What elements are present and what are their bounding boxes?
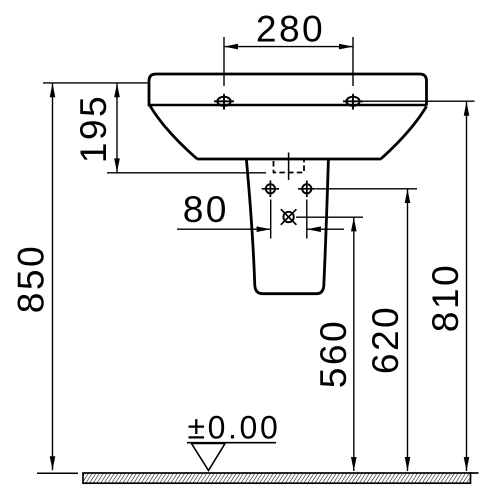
dim 280 arrow right bbox=[339, 44, 353, 50]
pedestal center hole (diagonal cross) bbox=[281, 209, 297, 225]
dim 620 line bbox=[407, 189, 409, 471]
floor line right stub bbox=[469, 472, 479, 474]
basin ledge line bbox=[149, 104, 427, 106]
drain hidden dashed box bbox=[274, 160, 305, 173]
dim 80 arrow left (pointing right) bbox=[257, 226, 271, 232]
dim 80 right line bbox=[307, 228, 344, 230]
svg-text:195: 195 bbox=[72, 94, 114, 163]
dim 280 extension line left bbox=[223, 37, 225, 86]
rim faucet hole right bbox=[343, 94, 363, 110]
dim 195 arrow top bbox=[114, 83, 120, 97]
extension line under right pedestal hole bbox=[306, 200, 308, 239]
level symbol triangle bbox=[192, 444, 226, 471]
floor hatched strip bbox=[83, 473, 471, 483]
dim 280 extension line right bbox=[352, 37, 354, 86]
pedestal outline bbox=[246, 160, 328, 294]
dim 810 line bbox=[466, 102, 468, 471]
svg-text:850: 850 bbox=[9, 244, 51, 313]
basin bowl left taper bbox=[150, 106, 197, 159]
dim 560 line bbox=[353, 217, 355, 471]
dim 280 line bbox=[224, 46, 353, 48]
dim 810 arrow top bbox=[464, 102, 470, 116]
pedestal fixing hole left bbox=[262, 181, 279, 198]
dim 560 text bbox=[312, 319, 354, 388]
dim 810 text bbox=[424, 263, 466, 332]
dim 195 bottom extension line bbox=[107, 172, 266, 174]
svg-text:560: 560 bbox=[312, 319, 354, 388]
dim 850 floor tick bbox=[37, 472, 78, 474]
svg-text:810: 810 bbox=[424, 263, 466, 332]
level label underline bbox=[187, 442, 276, 444]
dim 195 arrow bottom bbox=[114, 158, 120, 172]
rim faucet hole left bbox=[214, 94, 234, 110]
dim 80 left line bbox=[177, 228, 271, 230]
basin bowl right taper bbox=[381, 106, 427, 159]
extension line from rim hole level to 810 bbox=[359, 100, 475, 102]
basin outer rim outline bbox=[149, 74, 427, 107]
extension line from center hole to 560 bbox=[296, 216, 363, 218]
svg-text:±0.00: ±0.00 bbox=[188, 410, 281, 446]
top extension line (basin top level) bbox=[43, 82, 149, 84]
dim 620 text bbox=[364, 305, 406, 374]
basin bowl bottom line bbox=[197, 158, 381, 161]
dim 620 arrow top bbox=[405, 189, 411, 203]
dim 620 arrow bottom bbox=[405, 457, 411, 471]
dim 80 arrow right (pointing left) bbox=[307, 226, 321, 232]
dim 850 arrow top bbox=[50, 83, 56, 97]
extension line from right pedestal hole to 620 bbox=[316, 188, 417, 190]
svg-text:620: 620 bbox=[364, 305, 406, 374]
svg-text:280: 280 bbox=[256, 7, 325, 49]
drain centerline bbox=[288, 153, 290, 181]
dim 195 text bbox=[72, 94, 114, 163]
extension line under left pedestal hole bbox=[270, 200, 272, 239]
pedestal fixing hole right bbox=[298, 181, 315, 198]
dim 810 arrow bottom bbox=[464, 457, 470, 471]
dim 280 arrow left bbox=[224, 44, 238, 50]
dim 850 text bbox=[9, 244, 51, 313]
dim 560 arrow top bbox=[351, 217, 357, 231]
svg-text:80: 80 bbox=[183, 188, 229, 230]
dim 560 arrow bottom bbox=[351, 457, 357, 471]
dim 195 line bbox=[116, 83, 118, 172]
dim 850 arrow bottom bbox=[50, 456, 56, 470]
dim 850 line bbox=[52, 83, 54, 470]
